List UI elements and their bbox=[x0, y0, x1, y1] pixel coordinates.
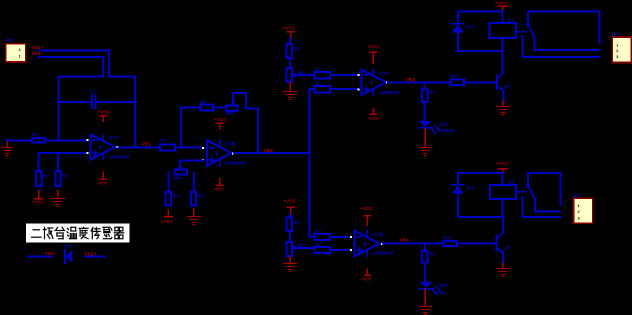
svg-text:IC?B: IC?B bbox=[225, 141, 235, 146]
wire NO throw to JP2 pin2 bbox=[535, 37, 599, 50]
wire R13 to IC2B non-inverting input bbox=[330, 249, 350, 251]
pin dot output bbox=[117, 146, 119, 148]
wire contact pole loop to JP2 pin1 bbox=[528, 11, 599, 42]
wire Q2 collector up bbox=[502, 217, 504, 233]
power pin V+ tick bbox=[366, 231, 368, 238]
potentiometer RP3 (threshold 1) bbox=[287, 68, 307, 82]
wire R10 to IC2A non-inverting input bbox=[330, 88, 357, 90]
power pin V- tick bbox=[219, 159, 221, 166]
wire RP4 wiper to R13 bbox=[296, 247, 315, 249]
title text (pseudo CJK glyphs) bbox=[32, 227, 124, 238]
power +VCC (below R2) bbox=[35, 191, 43, 199]
svg-text:VD?: VD? bbox=[465, 24, 474, 29]
wire RP1 wiper loop to output node bbox=[233, 93, 258, 153]
wire R9 to IC2A inverting input bbox=[330, 74, 357, 76]
svg-text:+VCC: +VCC bbox=[282, 25, 295, 31]
connector JP2 bbox=[611, 32, 631, 63]
resistor R1 bbox=[32, 132, 45, 143]
svg-text:JP?: JP? bbox=[6, 38, 14, 43]
svg-text:R?: R? bbox=[294, 220, 300, 225]
wire LED1 to ground bbox=[424, 129, 426, 147]
svg-text:+VCC: +VCC bbox=[367, 44, 380, 50]
wire stub to R3 bbox=[57, 153, 59, 171]
title box bbox=[26, 224, 129, 243]
power pin V+ tick bbox=[102, 134, 104, 141]
svg-text:3: 3 bbox=[616, 55, 618, 59]
svg-text:2: 2 bbox=[19, 48, 21, 52]
wire stub output to R17 bbox=[424, 244, 426, 252]
svg-text:VD?: VD? bbox=[64, 244, 73, 249]
power -VCC (below IC1B) bbox=[217, 178, 223, 185]
pin dot output bbox=[381, 243, 383, 245]
wire NC throw2 to JP3 pin3 bbox=[522, 198, 559, 217]
wire feedback left leg bbox=[181, 108, 201, 148]
pin dot inverting bbox=[202, 147, 204, 149]
svg-text:R?: R? bbox=[161, 139, 167, 144]
wire RP2 right terminal down bbox=[193, 173, 195, 192]
svg-text:1: 1 bbox=[578, 204, 580, 208]
pin dot non-inverting bbox=[202, 159, 204, 161]
wire right top rail to output node bbox=[109, 77, 135, 148]
resistor R10 bbox=[315, 82, 330, 93]
diode VD6 (flyback) bbox=[452, 173, 475, 217]
resistor R9 bbox=[315, 68, 330, 79]
svg-text:Q?: Q? bbox=[504, 84, 510, 89]
pin 7 tick inside bbox=[216, 152, 218, 154]
connector JP3 bbox=[572, 193, 592, 223]
svg-text:+VCC: +VCC bbox=[283, 199, 296, 205]
ground (below R7) bbox=[188, 209, 201, 224]
pin dot inverting bbox=[86, 139, 88, 141]
relay coil K2 bbox=[490, 173, 516, 217]
power -VCC (below IC2B) bbox=[365, 269, 371, 275]
wire sensor right bbox=[85, 256, 104, 258]
svg-text:3: 3 bbox=[578, 216, 580, 220]
power pin V- tick bbox=[366, 250, 368, 257]
svg-text:XXEEJH: XXEEJH bbox=[437, 128, 454, 133]
wire R11 to RP4 bbox=[289, 231, 291, 242]
wire VD1- vertical drop bbox=[102, 57, 104, 77]
svg-text:-VCC: -VCC bbox=[361, 276, 373, 282]
resistor R2 bbox=[36, 171, 49, 186]
svg-text:R?: R? bbox=[32, 132, 38, 137]
minus input glyph bbox=[364, 74, 368, 76]
wire R12 to IC2B inverting input bbox=[330, 236, 350, 238]
wire R1 to op-amp inverting input bbox=[45, 139, 87, 141]
pin dot output bbox=[386, 82, 388, 84]
svg-text:VD?: VD? bbox=[465, 186, 474, 191]
wire RP2 left terminal down bbox=[167, 173, 169, 192]
svg-text:RP?: RP? bbox=[173, 176, 182, 181]
svg-text:IC?A: IC?A bbox=[378, 71, 389, 76]
svg-text:R?: R? bbox=[294, 46, 300, 51]
op-amp IC2B bbox=[355, 231, 394, 256]
potentiometer RP4 (threshold 2) bbox=[287, 242, 307, 256]
op-amp IC2A bbox=[362, 70, 400, 96]
svg-text:R?: R? bbox=[429, 91, 435, 96]
svg-text:-VCC: -VCC bbox=[368, 116, 380, 122]
resistor R6 bbox=[166, 192, 179, 206]
svg-text:VB4: VB4 bbox=[399, 237, 409, 243]
op-amp IC1A bbox=[90, 134, 129, 160]
svg-text:+VCC: +VCC bbox=[160, 219, 173, 225]
svg-text:+VCC: +VCC bbox=[32, 199, 45, 205]
svg-text:LM358AM: LM358AM bbox=[378, 90, 399, 95]
wire top rail (diode to +VCC/coil) bbox=[458, 10, 503, 12]
svg-text:R??: R?? bbox=[451, 74, 460, 79]
wire Q1 collector up bbox=[502, 51, 504, 73]
resistor R14 (base resistor Q1) bbox=[450, 74, 464, 85]
wire R17 to LED2 bbox=[424, 262, 426, 282]
pin dot output bbox=[232, 152, 234, 154]
wire ground to R1 bbox=[7, 139, 32, 141]
resistor R7 bbox=[191, 192, 204, 206]
transistor Q1 bbox=[497, 73, 511, 91]
resistor R11 bbox=[287, 217, 301, 231]
pin dot non-inverting bbox=[350, 249, 352, 251]
svg-text:LM358AM: LM358AM bbox=[373, 250, 394, 255]
wire IC2B output bbox=[383, 243, 443, 245]
svg-text:LM358AM: LM358AM bbox=[109, 155, 130, 160]
power pin V- tick bbox=[102, 153, 104, 160]
relay coil K1 bbox=[489, 11, 516, 51]
wire IC1B non-inverting input from RP2 wiper bbox=[180, 160, 203, 167]
wire LED2 to ground bbox=[424, 289, 426, 306]
minus input glyph bbox=[93, 139, 97, 141]
wire C1 left lead bbox=[58, 101, 91, 103]
wire mid distribution vertical bbox=[309, 89, 311, 236]
potentiometer RP2 (offset trimmer) bbox=[173, 167, 187, 181]
relay contact K2 bbox=[517, 185, 536, 199]
wire top rail (diode2 to +VCC/coil2) bbox=[458, 172, 503, 174]
pin dot inverting bbox=[350, 236, 352, 238]
svg-text:R?: R? bbox=[43, 173, 49, 178]
ground (below LED2) bbox=[419, 307, 431, 315]
plus input glyph bbox=[357, 248, 361, 252]
diode VD3 (flyback) bbox=[452, 11, 475, 51]
wire R8 to RP3 bbox=[289, 58, 291, 68]
wire stub output to R15 bbox=[424, 82, 426, 89]
wire RP3 wiper to R9 bbox=[296, 74, 315, 76]
transistor Q2 bbox=[497, 233, 511, 254]
pin 7 tick inside bbox=[364, 243, 366, 245]
connector JP1 bbox=[6, 38, 26, 62]
plus input glyph bbox=[93, 151, 97, 155]
svg-text:R?: R? bbox=[198, 194, 204, 199]
wire IC2A output bbox=[388, 81, 450, 83]
wire Q1 emitter down bbox=[502, 91, 504, 102]
svg-text:1: 1 bbox=[616, 43, 618, 47]
svg-text:+VCC: +VCC bbox=[360, 206, 373, 212]
wire R15 to LED1 bbox=[424, 102, 426, 121]
LED VD5 bbox=[419, 282, 448, 295]
svg-text:VB3: VB3 bbox=[406, 77, 416, 83]
svg-text:1: 1 bbox=[19, 55, 21, 59]
sensor diode VD1 bbox=[64, 244, 73, 263]
LED VD2 bbox=[418, 121, 454, 133]
svg-text:RP?: RP? bbox=[226, 111, 235, 116]
power pin V- tick bbox=[372, 89, 374, 95]
relay contact K1 bbox=[517, 23, 536, 37]
svg-text:+VCC: +VCC bbox=[214, 117, 227, 123]
resistor R3 bbox=[55, 171, 68, 186]
wire NO throw2 to JP3 pin2 bbox=[535, 198, 560, 211]
wire VD1+ horizontal from JP1 bbox=[39, 49, 109, 51]
svg-text:2: 2 bbox=[616, 49, 618, 53]
power -VCC (below IC2A) bbox=[370, 109, 376, 114]
svg-text:IC?A: IC?A bbox=[109, 135, 120, 140]
svg-text:Q?: Q? bbox=[504, 245, 510, 250]
resistor R12 bbox=[315, 229, 330, 240]
wire stub to R2 bbox=[38, 153, 40, 171]
svg-text:+VCC: +VCC bbox=[97, 110, 110, 116]
resistor R17 (LED series) bbox=[422, 251, 435, 262]
svg-text:C?: C? bbox=[90, 89, 96, 94]
wire sensor left bbox=[28, 255, 52, 257]
wire VD1- horizontal from JP1 bbox=[39, 56, 103, 58]
svg-text:R?: R? bbox=[62, 173, 68, 178]
wire +VCC to R11 bbox=[289, 214, 291, 217]
svg-text:VD?: VD? bbox=[439, 283, 448, 288]
svg-text:-VCC: -VCC bbox=[213, 187, 225, 193]
svg-text:LM358AM: LM358AM bbox=[225, 161, 246, 166]
potentiometer RP1 (feedback trimmer) bbox=[226, 102, 238, 116]
wire relay2 bottom rail bbox=[458, 216, 503, 218]
plus input glyph bbox=[210, 158, 214, 162]
wire R14 to Q1 base bbox=[464, 81, 496, 83]
op-amp IC1B bbox=[207, 140, 246, 166]
svg-text:+VCC: +VCC bbox=[495, 161, 508, 167]
svg-text:VB1: VB1 bbox=[142, 142, 152, 148]
ground (below RP3) bbox=[284, 82, 297, 99]
wire +VCC to R8 bbox=[289, 38, 291, 44]
svg-text:R?: R? bbox=[429, 251, 435, 256]
resistor R16 (base resistor Q2) bbox=[443, 235, 457, 246]
resistor R5 (feedback) bbox=[200, 100, 213, 111]
pin 1 tick inside bbox=[99, 146, 101, 148]
resistor R15 (LED series) bbox=[422, 89, 435, 101]
ground (below Q1) bbox=[497, 101, 510, 114]
resistor R13 bbox=[315, 242, 330, 253]
minus input glyph bbox=[357, 236, 361, 238]
svg-text:-VCC: -VCC bbox=[97, 181, 109, 187]
svg-text:VD?: VD? bbox=[439, 122, 448, 127]
ground (below R3) bbox=[52, 191, 65, 207]
wire left top rail to inverting node bbox=[58, 77, 103, 141]
wire NC throw to JP2 pin3 bbox=[523, 37, 599, 57]
resistor R8 bbox=[287, 44, 301, 58]
pin 1 tick inside bbox=[371, 81, 373, 83]
wire Q2 emitter down bbox=[502, 253, 504, 264]
wire mid rail to R12 bbox=[310, 236, 315, 238]
plus input glyph bbox=[364, 87, 368, 91]
pin dot inverting bbox=[357, 74, 359, 76]
svg-text:R?: R? bbox=[173, 194, 179, 199]
pin dot non-inverting bbox=[86, 152, 88, 154]
wire VD1+ vertical drop bbox=[108, 50, 110, 76]
wire R4 to IC1B inverting input bbox=[175, 147, 202, 149]
wire mid rail to R10 bbox=[310, 88, 315, 90]
svg-text:VB2: VB2 bbox=[264, 148, 274, 154]
svg-text:2: 2 bbox=[578, 210, 580, 214]
power pin V+ tick bbox=[219, 140, 221, 147]
resistor R4 bbox=[160, 139, 175, 151]
wire IC1A output bbox=[119, 146, 161, 148]
power -VCC (below IC1A) bbox=[100, 172, 106, 179]
minus input glyph bbox=[210, 147, 214, 149]
power +VCC (below R6) bbox=[164, 210, 172, 216]
svg-text:R??: R?? bbox=[443, 235, 452, 240]
ground (left of R1) bbox=[2, 140, 13, 155]
wire R16 to Q2 base bbox=[457, 243, 496, 245]
pin dot non-inverting bbox=[357, 88, 359, 90]
wire non-inverting input bbox=[40, 152, 87, 154]
wire C1 right lead bbox=[96, 101, 135, 103]
ground (below Q2) bbox=[496, 264, 509, 277]
svg-text:XXLD: XXLD bbox=[434, 290, 446, 295]
wire IC1B output bbox=[234, 152, 310, 154]
svg-text:IC?B: IC?B bbox=[373, 232, 383, 237]
power pin V+ tick bbox=[372, 70, 374, 76]
wire contact2 pole loop to JP3 pin1 bbox=[528, 173, 560, 205]
wire relay bottom rail bbox=[457, 50, 502, 52]
capacitor C1 bbox=[90, 89, 96, 108]
ground (below RP4) bbox=[284, 256, 297, 271]
ground (below LED1) bbox=[419, 148, 431, 156]
wire R5 to RP1 bbox=[213, 107, 226, 109]
